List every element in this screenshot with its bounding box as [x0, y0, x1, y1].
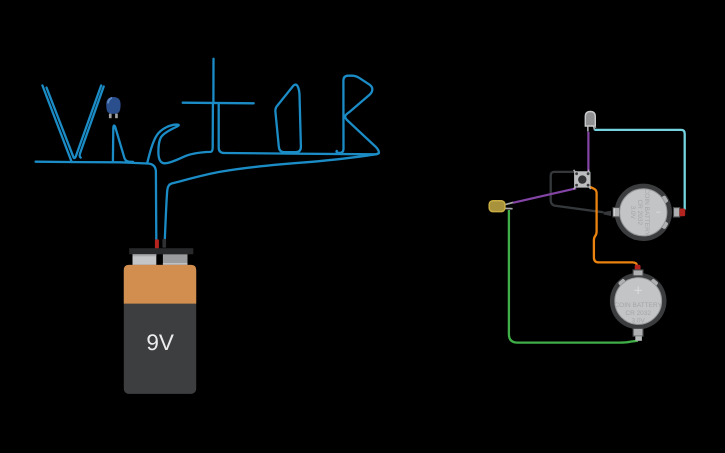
battery negative stub (black)	[162, 239, 166, 248]
wire purple LED anode to button	[587, 132, 589, 173]
battery orange band	[124, 265, 196, 304]
button pin bottom-left	[575, 184, 578, 187]
white LED flange notch	[595, 125, 597, 128]
right tab terminal	[674, 208, 680, 217]
button plunger	[578, 175, 586, 183]
top tab terminal	[633, 270, 643, 276]
wire baseline-left + drop to battery positive	[36, 162, 157, 240]
wire purple button to yellow LED	[513, 188, 576, 203]
wire letter V stroke 2+3 hairpin	[47, 85, 102, 158]
button pin top-right	[587, 172, 590, 175]
wire letter t right leg + baseline-right	[219, 104, 379, 154]
yellow LED lead bottom	[505, 207, 513, 209]
holder ring	[615, 184, 672, 241]
bottom tab terminal	[633, 328, 643, 336]
red positive cap	[635, 265, 641, 271]
white LED leads	[588, 126, 595, 132]
wire black button to coin battery 1	[551, 172, 604, 212]
cell face	[620, 189, 667, 236]
white LED bulb	[585, 112, 595, 127]
blue LED (dot of the i)	[106, 97, 120, 118]
red positive cap	[680, 209, 686, 217]
button leg bottom-right	[589, 186, 591, 189]
wire letter V stroke 1	[42, 85, 71, 161]
wire letter V stroke 4	[80, 87, 104, 158]
yellow LED body	[489, 201, 505, 212]
pushbutton S1	[574, 170, 591, 190]
button pin bottom-right	[587, 184, 590, 187]
wire orange button to coin battery 2	[590, 187, 637, 265]
button body	[574, 171, 590, 187]
LED U2 lead right	[593, 126, 594, 130]
battery positive stub (red)	[155, 239, 159, 248]
yellow LED lead top	[505, 202, 513, 204]
button leg top-left	[574, 170, 576, 173]
wire green yellow LED to coin battery 2	[509, 210, 638, 343]
wire letter t stem	[212, 59, 214, 104]
notch top-right	[650, 278, 659, 287]
wire letter R	[336, 76, 378, 153]
wire letter c flag and tail rising to t	[147, 105, 213, 164]
wire letter i hairpin	[113, 126, 133, 162]
LED highlight	[108, 98, 111, 103]
battery terminal post left	[133, 254, 157, 265]
svg-text:9V: 9V	[146, 330, 174, 355]
battery top cap	[129, 248, 193, 254]
notch top-left	[618, 278, 627, 287]
LED bulb	[106, 97, 120, 114]
coin battery 1 (rotated)	[613, 184, 685, 241]
button pin top-left	[575, 172, 578, 175]
LED lead left	[109, 114, 112, 119]
bottom stub	[635, 336, 642, 341]
button leg bottom-left	[574, 186, 576, 189]
holder ring	[610, 273, 667, 330]
left tab terminal	[613, 208, 620, 217]
black wire cone connector	[604, 211, 611, 216]
notch bottom-right	[660, 221, 668, 230]
button leg top-right	[588, 170, 590, 173]
minus mark	[656, 212, 660, 214]
cell face	[615, 278, 662, 325]
LED U2 lead left	[587, 126, 589, 132]
coin battery 2 (upright)	[610, 265, 667, 341]
wire letter O loop	[275, 85, 301, 153]
wire long diagonal from battery negative to R	[165, 153, 379, 239]
battery terminal post right	[163, 254, 188, 265]
plus mark	[634, 287, 642, 295]
notch top-right	[660, 195, 668, 204]
battery body	[124, 265, 196, 394]
wire letter t crossbar	[183, 102, 254, 105]
LED lead right	[115, 114, 118, 119]
wire cyan LED cathode to coin battery 1	[594, 130, 684, 210]
yellow LED D1 (sideways)	[489, 201, 513, 212]
